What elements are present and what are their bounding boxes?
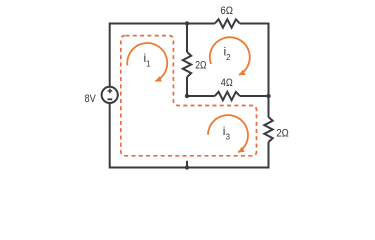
resistor R2 2-ohm (middle vertical zigzag): [183, 52, 191, 77]
wire: middle branch upper (top node down to 2-ohm): [186, 24, 188, 53]
node: right junction dot (right of 4-ohm): [266, 94, 270, 98]
svg-text:8V: 8V: [85, 93, 97, 105]
svg-text:2Ω: 2Ω: [195, 60, 206, 72]
resistor R4 2-ohm (right vertical zigzag): [264, 117, 272, 142]
resistor R3 4-ohm (horizontal zigzag): [215, 92, 240, 100]
wire: ground stub above bottom node: [186, 161, 188, 168]
resistor R1 6-ohm (top horizontal zigzag): [215, 19, 240, 27]
wire: 4-ohm right lead to right branch: [240, 95, 269, 97]
loop boundary: orange dashed supermesh outline (L-shaped): [121, 36, 257, 156]
node: bottom junction dot: [185, 165, 189, 169]
wire: right branch lower (2-ohm to bottom-right corner): [268, 142, 270, 169]
wire: left branch upper (top-left corner down to source): [109, 23, 111, 87]
wire: left branch lower (source down to bottom-left corner): [109, 103, 111, 169]
node: top junction dot: [185, 21, 189, 25]
mesh current arrow i1 (clockwise arc with arrowhead): [127, 43, 167, 81]
wire: top segment from source node to 6-ohm resistor: [110, 23, 215, 25]
node: middle junction dot (left of 4-ohm): [185, 94, 189, 98]
svg-text:i1: i1: [144, 51, 152, 68]
wire: bottom segment: [110, 167, 269, 169]
voltage source plus sign: [108, 89, 113, 94]
svg-text:i3: i3: [223, 124, 231, 141]
wire: right branch upper (top-right corner to 2-ohm): [268, 23, 270, 118]
svg-text:4Ω: 4Ω: [221, 77, 233, 89]
svg-text:i2: i2: [224, 44, 232, 61]
mesh current arrow i2 (clockwise arc with arrowhead): [210, 37, 250, 75]
voltage source V1 8V circle: [102, 87, 118, 103]
voltage source minus sign: [108, 98, 113, 100]
wire: top right segment to top-right corner: [240, 23, 269, 25]
svg-text:6Ω: 6Ω: [220, 5, 233, 17]
mesh current arrow i3 (clockwise arc with arrowhead): [208, 115, 248, 152]
svg-text:2Ω: 2Ω: [276, 128, 288, 140]
wire: 4-ohm left lead: [187, 95, 215, 97]
wire: middle branch lower (2-ohm down to middle node): [186, 77, 188, 96]
